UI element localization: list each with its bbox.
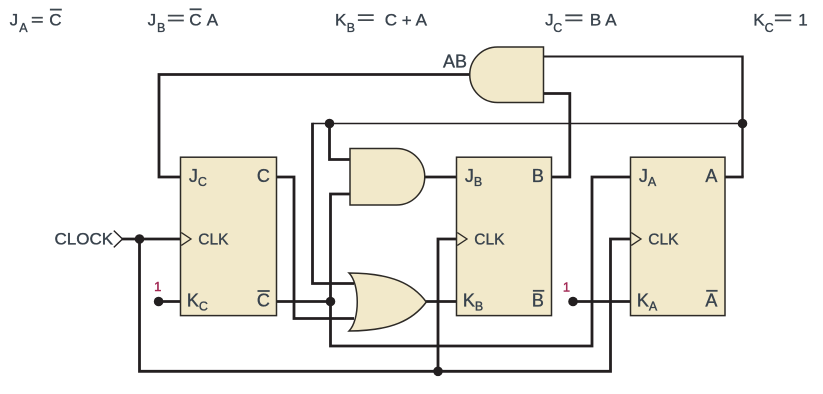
svg-text:A: A [207, 11, 219, 30]
svg-text:CLOCK: CLOCK [55, 230, 114, 249]
svg-text:A: A [705, 166, 717, 186]
wire: C-bar output of U1 [277, 300, 331, 303]
clock source chevron [114, 231, 123, 248]
svg-text:1: 1 [563, 280, 570, 295]
svg-text:B: B [157, 21, 165, 35]
svg-text:+: + [402, 11, 412, 30]
or-gate U6 [349, 273, 426, 331]
wire: C-bar to JA input of U3 [331, 177, 632, 346]
wire: constant 1 to KA input [573, 300, 631, 303]
pin label C-bar output [257, 291, 270, 311]
svg-text:A: A [19, 21, 28, 35]
svg-text:C: C [189, 11, 201, 30]
wire: A net long horizontal [313, 123, 743, 125]
svg-text:B: B [590, 11, 601, 30]
svg-text:C: C [49, 11, 61, 30]
svg-text:B: B [532, 291, 544, 311]
wire: OR gate output to KB input [426, 300, 457, 303]
svg-text:C: C [257, 291, 270, 311]
svg-text:C: C [553, 21, 562, 35]
svg-text:CLK: CLK [198, 231, 229, 248]
pin label B-bar output [532, 291, 544, 311]
wire: B output of U2 to AB gate lower input [544, 94, 570, 178]
svg-text:K: K [753, 11, 765, 30]
junction: A net to AND input [325, 119, 335, 129]
svg-text:C: C [385, 11, 397, 30]
equation KC = 1 [753, 11, 807, 35]
and-gate U5 [350, 149, 425, 206]
svg-text:A: A [416, 11, 428, 30]
clk edge triangle U3 [631, 233, 641, 246]
junction: C-bar net [326, 297, 336, 307]
wire: C output of U1 to OR gate bottom input [277, 177, 355, 319]
equation KB = C + A [335, 11, 428, 35]
flip-flop U2 body [457, 157, 552, 315]
wire: CLOCK input to U1 CLK [122, 238, 182, 241]
clk edge triangle U2 [457, 233, 467, 246]
equation JC = B A [545, 11, 617, 35]
and-gate U4 (AB), mirrored facing left [470, 47, 544, 103]
svg-text:B: B [532, 166, 544, 186]
svg-text:J: J [148, 11, 157, 30]
svg-text:A: A [605, 11, 617, 30]
svg-text:1: 1 [798, 11, 807, 30]
svg-text:CLK: CLK [648, 231, 679, 248]
junction: clock tap U2 [433, 367, 443, 377]
wire: AND gate output to JB input [424, 176, 457, 179]
wire: constant 1 to KC input [159, 300, 181, 303]
pin label A-bar output [705, 291, 717, 311]
junction: KC terminal [154, 297, 164, 307]
wire: A to AND gate top input [330, 124, 352, 160]
svg-text:B: B [347, 21, 355, 35]
svg-text:C: C [765, 21, 774, 35]
clk edge triangle U1 [181, 233, 191, 246]
flip-flop U1 body [181, 157, 277, 315]
svg-text:J: J [10, 11, 19, 30]
equation JA = C-bar [10, 10, 62, 35]
wire: CLOCK branch to U2 CLK [438, 239, 457, 373]
junction: KA terminal [568, 297, 578, 307]
wire: A net top (AB gate upper input) [544, 56, 743, 58]
wire: AB gate output to JC input [159, 75, 470, 178]
svg-text:AB: AB [443, 52, 467, 72]
wire: A output stub of U3 [725, 176, 744, 179]
wire: C-bar to AND gate bottom input [331, 194, 352, 302]
wire: A net vertical at right [741, 56, 743, 178]
junction: A net right [738, 119, 748, 129]
junction: clock tap [135, 234, 145, 244]
svg-text:1: 1 [154, 279, 161, 294]
svg-text:A: A [705, 291, 717, 311]
svg-text:CLK: CLK [474, 231, 505, 248]
svg-text:K: K [335, 11, 347, 30]
wire: A to OR gate top input [313, 123, 355, 284]
wire: CLOCK bottom distribution to U3 CLK [140, 239, 632, 371]
equation JB = C-bar A [148, 9, 219, 35]
svg-text:C: C [257, 166, 270, 186]
flip-flop U3 body [631, 157, 726, 315]
